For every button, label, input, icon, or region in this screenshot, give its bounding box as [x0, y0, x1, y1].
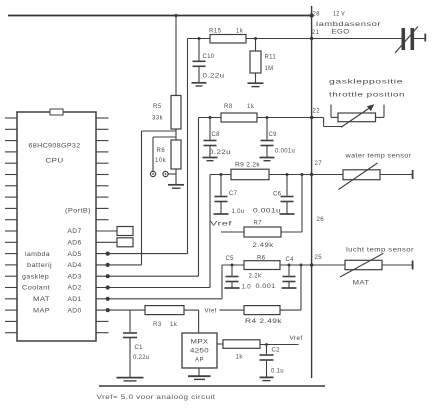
wire gasklep node to R8 — [199, 117, 222, 119]
wire CPU left pin stub 3 — [5, 140, 17, 142]
svg-text:MAP: MAP — [33, 308, 50, 314]
capacitor C9 — [266, 118, 268, 140]
svg-text:1k: 1k — [236, 355, 244, 361]
wire CPU left pin stub 10 — [5, 219, 17, 221]
svg-text:10k: 10k — [155, 158, 167, 164]
svg-text:1k: 1k — [247, 104, 255, 110]
svg-text:AP: AP — [195, 358, 204, 364]
wire Vref to R4 — [220, 309, 245, 311]
svg-text:C2: C2 — [272, 348, 281, 354]
wire CPU left pin stub 19 — [5, 320, 17, 322]
svg-text:throttle position: throttle position — [329, 93, 405, 99]
capacitor C4 — [288, 265, 290, 276]
wire CPU left pin stub 14 — [5, 264, 17, 266]
svg-text:33k: 33k — [152, 116, 164, 122]
wire jumper down — [152, 137, 154, 171]
wire AD4 batterij to node — [96, 264, 142, 266]
ground below R11 — [248, 82, 264, 84]
wire AD2 Coolant to node — [96, 287, 210, 289]
wire MAT riser — [221, 265, 223, 299]
svg-text:0.22u: 0.22u — [203, 74, 225, 80]
resistor R9 — [231, 169, 269, 180]
wire MPX out to R 1k — [217, 343, 223, 345]
wire batterij riser — [141, 131, 143, 265]
wire CPU right pin stub 7 — [96, 185, 109, 187]
wire test point to R6 lead — [168, 173, 176, 175]
wire CPU left pin stub 5 — [5, 162, 17, 164]
svg-text:22: 22 — [313, 109, 321, 115]
svg-text:68HC908GP32: 68HC908GP32 — [29, 143, 81, 150]
svg-text:C7: C7 — [229, 191, 238, 197]
svg-text:C9: C9 — [269, 132, 278, 138]
capacitor C6 — [286, 175, 288, 196]
wire CPU right pin stub 2 — [96, 128, 109, 130]
thermistor MAT sensor — [345, 260, 382, 269]
sensor MPX4250AP — [182, 333, 217, 368]
wire CPU right pin stub 3 — [96, 140, 109, 142]
node pin 27 junction — [310, 173, 313, 176]
wire pot left terminal — [330, 105, 332, 118]
resistor R3 — [145, 306, 184, 315]
svg-text:AD7: AD7 — [68, 229, 82, 235]
svg-text:gaskleppositie: gaskleppositie — [329, 80, 404, 86]
wire R6 to connector pin 25 — [280, 264, 312, 266]
svg-text:28: 28 — [313, 12, 321, 18]
wire CPU left pin stub 18 — [5, 309, 17, 311]
svg-text:AD3: AD3 — [68, 274, 82, 280]
svg-text:R8: R8 — [224, 104, 233, 110]
wire lambda node to R15 — [188, 38, 211, 40]
wire CPU left pin stub 11 — [5, 230, 17, 232]
wire AD5 lambda to node — [96, 253, 188, 255]
wire CPU right pin stub 5 — [96, 162, 109, 164]
wire CPU left pin stub 8 — [5, 196, 17, 198]
resistor R8 — [221, 113, 257, 122]
wire MPX to ground — [198, 368, 200, 376]
node pin 21 junction — [310, 37, 313, 40]
svg-text:EGO: EGO — [332, 30, 350, 36]
wire R4 to MAT node — [280, 309, 301, 311]
capacitor C8 — [209, 118, 211, 140]
wire 1k to Vref — [260, 344, 299, 346]
wire CPU left pin stub 15 — [5, 275, 17, 277]
wire 12V supply rail — [8, 15, 312, 17]
wire R3 to MPX — [184, 309, 199, 311]
wire pin 25 to MAT sensor — [312, 264, 345, 266]
svg-text:MAT: MAT — [353, 281, 370, 287]
wire CPU left pin stub 9 — [5, 207, 17, 209]
op-amp U1 CPU 68HC908GP32 — [17, 112, 96, 341]
wire CPU left pin stub 12 — [5, 241, 17, 243]
svg-text:water temp sensor: water temp sensor — [344, 154, 411, 160]
wire EGO to lambda sensor — [312, 38, 402, 40]
svg-text:0.22u: 0.22u — [133, 355, 150, 361]
wire pot right terminal — [383, 105, 385, 118]
svg-text:2.49k: 2.49k — [253, 243, 275, 249]
wire jumper branch — [153, 136, 176, 138]
wire CPU left pin stub 6 — [5, 174, 17, 176]
terminal tick — [424, 34, 426, 42]
node pin 28 junction — [309, 13, 313, 17]
ground below C1 — [117, 377, 144, 379]
wire pin 27 to CLT sensor — [312, 174, 343, 176]
wire MAT sensor to terminal — [382, 264, 413, 266]
svg-text:R15: R15 — [209, 29, 222, 35]
wire CPU left pin stub 2 — [5, 128, 17, 130]
svg-text:gasklep: gasklep — [22, 274, 49, 280]
wire CPU left pin stub 13 — [5, 253, 17, 255]
wire AD6 — [96, 241, 117, 243]
svg-text:R9 2.2k: R9 2.2k — [235, 163, 261, 169]
wire MAT riser to R6m — [222, 264, 244, 266]
node connector boundary bus — [311, 6, 313, 378]
svg-text:R11: R11 — [265, 55, 277, 61]
capacitor C5 — [231, 265, 233, 276]
svg-text:26: 26 — [317, 217, 325, 223]
resistor R4 — [244, 306, 280, 315]
test point circle — [150, 171, 155, 176]
svg-text:lambda: lambda — [25, 252, 50, 258]
svg-text:0.22u: 0.22u — [209, 150, 231, 156]
svg-text:1.0: 1.0 — [242, 285, 252, 291]
svg-text:(PortB): (PortB) — [65, 209, 91, 215]
resistor R6 2.2k — [244, 261, 280, 270]
svg-text:lambdasensor: lambdasensor — [316, 22, 381, 28]
svg-text:Vref: Vref — [210, 222, 232, 228]
wire CPU left pin stub 1 — [5, 117, 17, 119]
svg-text:1M: 1M — [265, 66, 274, 72]
svg-text:batterij: batterij — [27, 263, 52, 269]
wire CLT sensor to terminal — [380, 174, 413, 176]
wire R7 to CLT node — [281, 231, 302, 233]
wire pin 22 to wiper — [312, 117, 324, 119]
capacitor C7 — [220, 175, 222, 196]
capacitor C2 — [266, 345, 268, 355]
svg-text:1k: 1k — [236, 29, 244, 35]
wire AD7 — [96, 230, 117, 232]
svg-text:C6: C6 — [273, 192, 282, 198]
terminal tick MAT — [412, 261, 414, 270]
terminal tick CLT — [412, 170, 414, 179]
resistor R15 — [210, 35, 246, 44]
svg-text:R6: R6 — [257, 256, 266, 262]
wire CPU left pin stub 17 — [5, 298, 17, 300]
wire Coolant riser — [209, 175, 211, 288]
svg-text:AD4: AD4 — [68, 263, 82, 269]
svg-text:C8: C8 — [212, 132, 221, 138]
wire Vref to R7 — [221, 231, 244, 233]
wire AD0 MAP to R3 — [96, 309, 145, 311]
wire CPU right pin stub 6 — [96, 174, 109, 176]
svg-text:R4 2.49k: R4 2.49k — [245, 319, 283, 325]
svg-text:12 V: 12 V — [333, 12, 345, 18]
ground below R6 — [168, 184, 184, 186]
svg-text:0.001u: 0.001u — [253, 209, 281, 215]
wire gasklep riser — [198, 118, 200, 277]
svg-text:0.001u: 0.001u — [275, 149, 295, 155]
svg-text:21: 21 — [312, 30, 320, 36]
lambda sensor symbol — [402, 28, 406, 50]
wire CPU left pin stub 20 — [5, 332, 17, 334]
svg-text:AD5: AD5 — [68, 252, 82, 258]
resistor R7 — [244, 227, 281, 237]
svg-text:R5: R5 — [153, 104, 162, 110]
svg-text:1.0u: 1.0u — [232, 209, 245, 215]
svg-text:1k: 1k — [170, 322, 178, 328]
svg-text:lucht temp sensor: lucht temp sensor — [346, 248, 414, 254]
wire R8 to connector pin 22 — [257, 117, 312, 119]
wire R11 to ground — [255, 73, 257, 83]
node pin 25 junction — [310, 263, 313, 266]
svg-text:27: 27 — [315, 161, 323, 167]
node pin 22 junction — [310, 116, 313, 119]
potentiometer throttle position sensor — [338, 113, 376, 122]
wire CPU right pin stub 1 — [96, 117, 109, 119]
svg-text:R7: R7 — [254, 221, 263, 227]
capacitor C1 — [129, 310, 131, 332]
test point circle 2 — [163, 171, 168, 176]
svg-text:25: 25 — [315, 255, 323, 261]
svg-text:MAT: MAT — [33, 297, 50, 303]
svg-text:Coolant: Coolant — [22, 286, 50, 292]
svg-text:0.1u: 0.1u — [271, 369, 284, 375]
svg-text:AD2: AD2 — [68, 286, 82, 292]
svg-text:Vref: Vref — [290, 336, 303, 342]
wire 12V tap to R5 — [175, 16, 177, 96]
ground below C2 — [260, 376, 274, 378]
resistor R6 — [171, 140, 181, 169]
svg-text:4250: 4250 — [190, 349, 209, 355]
wire CPU right pin stub 9 — [96, 207, 109, 209]
svg-text:C4: C4 — [286, 257, 295, 263]
wire CPU right pin stub 8 — [96, 196, 109, 198]
wire CPU left pin stub 16 — [5, 287, 17, 289]
ground below MPX — [188, 375, 211, 377]
svg-text:C5: C5 — [226, 256, 235, 262]
wire lambda riser — [187, 39, 189, 254]
wire CPU right pin stub 4 — [96, 151, 109, 153]
wire AD3 gasklep to node — [96, 275, 199, 277]
wire R11 top lead — [255, 39, 257, 52]
wire R5 bottom to R6 top — [175, 129, 177, 140]
wire CPU right pin stub 19 — [96, 320, 109, 322]
svg-text:AD6: AD6 — [68, 241, 82, 247]
wire R9 to connector pin 27 — [269, 174, 312, 176]
wire R15 to connector pin 21 — [246, 38, 312, 40]
wire R6 to ground — [175, 169, 177, 185]
svg-text:0.001: 0.001 — [256, 284, 276, 290]
notch — [50, 109, 63, 115]
svg-text:R6: R6 — [157, 148, 166, 154]
resistor 1k MPX — [223, 340, 260, 349]
wire CPU right pin stub 20 — [96, 332, 109, 334]
svg-text:C10: C10 — [203, 54, 215, 60]
svg-text:2.2k: 2.2k — [249, 274, 263, 280]
wire divider node to batterij riser — [142, 130, 177, 132]
capacitor C10 — [198, 39, 200, 61]
wire lambda sensor to terminal — [414, 38, 425, 40]
svg-text:MPX: MPX — [191, 340, 209, 346]
wire CPU left pin stub 4 — [5, 151, 17, 153]
wire CPU left pin stub 7 — [5, 185, 17, 187]
svg-text:C1: C1 — [135, 345, 144, 351]
svg-text:Vref: Vref — [205, 309, 217, 315]
wire AD1 MAT to node — [96, 298, 222, 300]
wire CPU right pin stub 10 — [96, 219, 109, 221]
svg-text:AD1: AD1 — [68, 297, 82, 303]
svg-text:Vref= 5.0 voor analoog circuit: Vref= 5.0 voor analoog circuit — [97, 395, 216, 401]
jumper pad J1 on AD7 — [117, 227, 133, 236]
wire bottom rail — [99, 385, 325, 387]
resistor R5 — [171, 96, 181, 130]
thermistor CLT sensor — [343, 170, 380, 180]
pot wiper arrow — [341, 107, 371, 127]
svg-text:CPU: CPU — [46, 158, 64, 165]
svg-text:R3: R3 — [153, 322, 162, 328]
svg-text:AD0: AD0 — [68, 308, 82, 314]
jumper pad J2 on AD6 — [117, 238, 133, 247]
resistor R11 — [250, 51, 261, 73]
wire Coolant riser to R9 — [210, 174, 231, 176]
